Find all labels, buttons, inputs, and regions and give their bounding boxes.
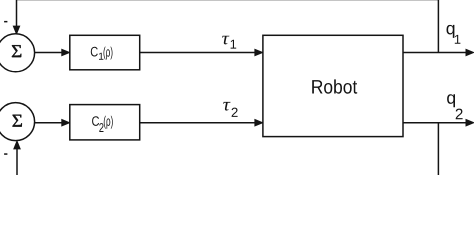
arrowhead at q2 output [466, 119, 474, 126]
label subscript 1 of tau1 [231, 40, 237, 49]
arrowhead into Robot top input [255, 49, 263, 56]
label subscript 1 of C1 [99, 53, 103, 60]
block C1 [70, 35, 140, 70]
wire: bottom feedback rising into S2 [16, 149, 18, 176]
sigma label of S2 [13, 115, 22, 127]
label subscript 1 of q1 [455, 35, 461, 44]
arrowhead into summing junction 2 (pointing up) [14, 141, 21, 149]
minus sign at summing junction 1 [4, 21, 7, 23]
wire: S2 output to C2 [35, 122, 63, 124]
wire: top feedback line from q1 branch across the top to S1 [17, 0, 439, 52]
summing junction S2 [0, 103, 35, 141]
label (rho) of C1 [104, 47, 113, 60]
wire: S1 output to C1 [35, 52, 63, 54]
label Robot [312, 79, 357, 93]
arrowhead into Robot bottom input [255, 119, 263, 126]
label tau2 [223, 102, 230, 111]
label q1 [447, 25, 455, 38]
wire: C1 output to Robot (tau1) [140, 52, 256, 54]
label C of C2 [92, 116, 99, 126]
arrowhead into summing junction 1 (pointing down) [13, 26, 20, 34]
label subscript 2 of tau2 [232, 108, 238, 117]
label C of C1 [91, 47, 98, 57]
label q2 [447, 94, 455, 107]
arrowhead into C2 [62, 119, 70, 126]
label subscript 2 of q2 [456, 109, 463, 120]
minus sign at summing junction 2 [4, 153, 7, 155]
wire: Robot output q2 [403, 122, 467, 124]
label subscript 2 of C2 [99, 123, 103, 132]
block Robot [263, 35, 403, 136]
arrowhead at q1 output [466, 49, 474, 56]
wire: C2 output to Robot (tau2) [140, 122, 256, 124]
label tau1 [222, 36, 229, 45]
arrowhead into C1 [62, 49, 70, 56]
sigma label of S1 [12, 45, 21, 57]
summing junction S1 [0, 34, 35, 72]
wire: Robot output q1 [403, 52, 467, 54]
label (rho) of C2 [104, 116, 113, 129]
block C2 [70, 105, 140, 140]
wire: bottom feedback branch down from q2 line [437, 123, 439, 175]
